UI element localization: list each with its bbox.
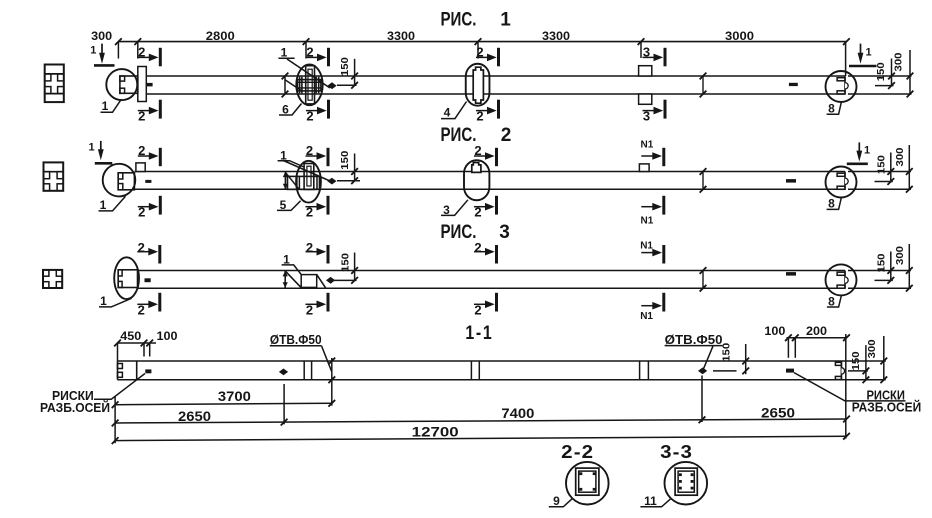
leader РИСКИ right <box>794 373 906 401</box>
console diagonal right fig.3 <box>317 275 326 288</box>
hole diamond fig.3 <box>326 277 335 284</box>
svg-text:РАЗБ.ОСЕЙ: РАЗБ.ОСЕЙ <box>852 400 922 415</box>
detail circle 8 fig.2 <box>826 167 857 198</box>
section marker 2 top at x160 fig.1 <box>159 48 162 67</box>
console diagonal fig.1 <box>287 59 330 88</box>
right notch top section 1-1 <box>835 362 841 365</box>
dim tick 641 <box>638 38 645 45</box>
svg-text:РИС.: РИС. <box>441 222 477 243</box>
console stub top left fig.2 <box>136 163 145 172</box>
left notch top section 1-1 <box>118 364 123 369</box>
section marker 2 bottom at x498 fig.1 <box>497 100 500 119</box>
svg-text:8: 8 <box>828 294 835 308</box>
svg-text:2: 2 <box>306 204 313 219</box>
dim 450-100 line left <box>118 342 157 344</box>
svg-text:2: 2 <box>306 108 313 123</box>
extension line left bottom dims <box>114 396 116 443</box>
centering bump right fig.1 <box>845 83 848 89</box>
joint lines at x640 <box>639 361 641 380</box>
section marker 2 top at x160 fig.2 <box>159 148 162 166</box>
svg-text:150: 150 <box>340 253 352 272</box>
svg-text:200: 200 <box>806 324 827 338</box>
end plate left fig.3 <box>118 270 137 288</box>
hidden console body fig.3 <box>301 275 317 288</box>
svg-text:2: 2 <box>138 240 145 255</box>
hole diamond fig.2 <box>327 178 336 185</box>
axis mark right fig.1 <box>789 83 798 86</box>
beam bottom line fig.2 <box>134 188 845 190</box>
svg-text:8: 8 <box>828 197 835 211</box>
svg-text:ØТВ.Ф50: ØТВ.Ф50 <box>270 332 322 347</box>
svg-text:РИС.: РИС. <box>441 125 477 146</box>
svg-text:2: 2 <box>476 108 483 123</box>
svg-text:7400: 7400 <box>501 405 534 421</box>
console post inner fig.1 <box>308 69 312 100</box>
extension line right end fig.1 <box>845 42 847 76</box>
centering bump right fig.2 <box>845 178 848 184</box>
detail circle 8 fig.1 <box>826 71 857 102</box>
console diagonal fig.2 <box>283 160 330 181</box>
dim line 2650-7400-2650 <box>115 419 846 423</box>
beam bottom line fig.1 <box>146 93 845 95</box>
stirrup section 3-3 <box>678 471 694 492</box>
section marker 2 top at x498 fig.1 <box>497 48 500 67</box>
end notch top right fig.1 <box>837 78 845 81</box>
svg-text:2: 2 <box>306 240 313 255</box>
band right end face <box>840 361 842 380</box>
console diagonal left fig.3 <box>285 271 301 288</box>
beam top extension right fig.1 <box>848 75 912 77</box>
console post fig.2 <box>304 164 314 190</box>
section marker 2 top at x496 fig.3 <box>495 245 498 264</box>
console stub top at x641 fig.1 <box>639 66 652 76</box>
svg-text:150: 150 <box>339 151 351 170</box>
console diagonal lower fig.1 <box>285 80 302 91</box>
section marker N1 bottom fig.3 <box>662 293 665 312</box>
axis mark right section 1-1 <box>786 369 794 373</box>
dim tick 306 <box>303 38 310 45</box>
hatch ticks console fig.1 <box>299 77 301 94</box>
centering bump right fig.3 <box>845 277 848 283</box>
beam top extension right fig.3 <box>848 270 911 272</box>
svg-text:1: 1 <box>500 9 511 30</box>
section arrow 1 right fig.2 <box>858 142 860 152</box>
detail circle 1 left fig.1 <box>106 69 137 100</box>
svg-text:12700: 12700 <box>412 423 459 439</box>
console stub bottom at x641 fig.1 <box>639 94 652 104</box>
hole symbol left section 1-1 <box>331 358 333 406</box>
band bottom extension right <box>843 379 886 381</box>
end notch top right fig.2 <box>837 173 845 176</box>
end plate anchor bottom-left fig.1 <box>120 88 125 93</box>
beam top line fig.2 <box>134 171 845 173</box>
svg-text:2: 2 <box>306 143 313 158</box>
beam right end face fig.2 <box>844 172 846 190</box>
svg-text:1: 1 <box>865 46 871 58</box>
dim tick 118 <box>115 38 122 45</box>
console post fig.1 <box>306 66 315 104</box>
axis point diamond left section 1-1 <box>279 369 288 376</box>
section arrow 1 left fig.2 <box>100 141 102 151</box>
end notch bottom right fig.3 <box>837 285 845 288</box>
axis mark left fig.2 <box>145 180 151 183</box>
svg-text:ØТВ.Ф50: ØТВ.Ф50 <box>665 332 723 347</box>
dim tick 478 <box>475 38 482 45</box>
end notch top right fig.3 <box>837 272 845 275</box>
end plate anchor bottom-left fig.3 <box>118 281 122 287</box>
svg-text:3000: 3000 <box>725 29 754 43</box>
svg-text:100: 100 <box>157 329 178 343</box>
beam right end face fig.1 <box>844 76 846 94</box>
beam right end face fig.3 <box>844 271 846 289</box>
right notch bottom section 1-1 <box>835 376 841 379</box>
svg-text:1: 1 <box>90 45 96 57</box>
beam top extension right fig.2 <box>848 171 911 173</box>
axis mark left section 1-1 <box>145 369 151 373</box>
end notch bottom right fig.2 <box>837 186 845 189</box>
beam bottom extension right fig.2 <box>848 188 911 190</box>
extension line 306 <box>305 42 307 59</box>
rebar dots section 3-3 <box>679 473 682 476</box>
section marker 3 top at x665 fig.1 <box>664 48 667 67</box>
dim line vertical at console fig.1 <box>284 76 286 94</box>
band top line section 1-1 <box>118 360 844 362</box>
joint stadium 4 fig.1 <box>473 67 483 103</box>
console post inner fig.2 <box>307 166 311 186</box>
extension line 478 <box>477 42 479 59</box>
svg-text:2-2: 2-2 <box>561 441 594 462</box>
beam top line fig.3 <box>138 270 846 272</box>
section marker 3 bottom at x665 fig.1 <box>664 100 667 119</box>
axis mark left fig.1 <box>147 83 153 87</box>
svg-text:300: 300 <box>866 339 878 358</box>
svg-text:8: 8 <box>828 101 835 115</box>
section marker N1 bottom fig.2 <box>662 196 665 215</box>
svg-text:150: 150 <box>339 57 351 76</box>
joint lines at x471 <box>470 361 472 380</box>
section marker 2 bottom at x328 fig.1 <box>327 100 330 119</box>
detail circle section 2-2 <box>566 462 609 505</box>
svg-text:N1: N1 <box>641 216 654 227</box>
svg-text:300: 300 <box>894 246 906 265</box>
cross-section icon fig.1 <box>45 65 64 103</box>
section marker N1 top fig.2 <box>662 148 665 166</box>
svg-text:150: 150 <box>876 253 888 272</box>
svg-text:9: 9 <box>553 494 560 508</box>
svg-text:РИС.: РИС. <box>441 9 477 30</box>
cross-section icon fig.2 <box>44 162 64 190</box>
svg-text:N1: N1 <box>640 240 653 251</box>
joint stadium 3 fig.2 <box>472 163 481 173</box>
section marker N1 top fig.3 <box>662 245 665 264</box>
svg-text:N1: N1 <box>641 140 654 151</box>
svg-text:2800: 2800 <box>206 29 235 43</box>
svg-text:450: 450 <box>120 329 141 343</box>
detail ellipse 5 fig.2 <box>296 161 321 203</box>
svg-text:2650: 2650 <box>178 408 211 424</box>
hole centerline tick at x703 fig.2 <box>702 172 704 190</box>
dim line vertical at console fig.3 <box>284 271 286 288</box>
svg-text:3700: 3700 <box>218 388 251 404</box>
column outline section 3-3 <box>675 468 697 495</box>
dim tick 138 <box>134 38 141 45</box>
svg-text:3-3: 3-3 <box>660 441 693 462</box>
section marker 2 bottom at x328 fig.2 <box>327 196 330 215</box>
detail circle section 3-3 <box>665 462 708 505</box>
end plate left fig.1 <box>120 76 138 93</box>
end plate anchor top-left fig.3 <box>118 270 122 276</box>
svg-text:3300: 3300 <box>542 29 570 43</box>
leader label 1 left fig.1 <box>101 100 122 113</box>
extension line 118 <box>117 42 119 59</box>
section marker 2 bottom at x328 fig.3 <box>327 293 330 312</box>
section marker 2 bottom at x160 fig.1 <box>159 100 162 119</box>
svg-text:РАЗБ.ОСЕЙ: РАЗБ.ОСЕЙ <box>40 400 110 415</box>
svg-text:2650: 2650 <box>761 405 795 421</box>
svg-text:2: 2 <box>138 45 145 60</box>
extension line 641 <box>640 42 642 58</box>
hole diamond fig.1 <box>327 82 336 89</box>
section marker 2 top at x328 fig.2 <box>327 148 330 166</box>
svg-text:300: 300 <box>893 52 905 71</box>
cross-section icon fig.3 <box>43 270 62 288</box>
axis mark left fig.3 <box>145 278 151 282</box>
end plate left fig.2 <box>118 173 134 190</box>
leader label 1 left fig.2 <box>99 196 126 211</box>
svg-text:2: 2 <box>138 204 145 219</box>
beam bottom extension right fig.3 <box>848 287 911 289</box>
svg-text:1: 1 <box>100 198 107 212</box>
dim line 12700 <box>115 436 846 440</box>
leader РИСКИ left <box>94 374 145 400</box>
plate boundary line section 1-1 <box>136 361 138 380</box>
section marker 2 top at x496 fig.2 <box>495 148 498 166</box>
svg-text:2: 2 <box>138 108 145 123</box>
console diagonal lower fig.2 <box>285 172 299 189</box>
svg-text:150: 150 <box>875 62 887 81</box>
detail ellipse 6 fig.1 <box>296 64 322 105</box>
hole centerline tick at x703 fig.3 <box>702 271 704 289</box>
console arm fig.1 <box>297 80 321 91</box>
beam bottom extension right fig.1 <box>848 93 912 95</box>
dim line vertical at console fig.2 <box>284 172 286 190</box>
column outline section 2-2 <box>576 468 599 495</box>
svg-text:2: 2 <box>474 302 481 317</box>
section marker 2 top at x160 fig.3 <box>158 245 161 264</box>
svg-text:2: 2 <box>501 125 512 146</box>
svg-text:2: 2 <box>474 204 481 219</box>
section marker 2 bottom at x160 fig.2 <box>159 196 162 215</box>
svg-text:150: 150 <box>721 343 733 362</box>
svg-text:4: 4 <box>444 105 451 119</box>
extension line right bottom dims <box>845 334 847 439</box>
section arrow 1 right fig.1 <box>860 44 862 55</box>
svg-text:1-1: 1-1 <box>465 323 493 344</box>
band top extension right <box>843 360 886 362</box>
svg-text:2: 2 <box>138 143 145 158</box>
section marker 2 bottom at x160 fig.3 <box>158 293 161 312</box>
svg-text:2: 2 <box>476 45 483 60</box>
extension line 138 <box>137 42 139 59</box>
centering bump right section 1-1 <box>841 368 844 374</box>
leader label 1 left fig.3 <box>99 298 132 307</box>
detail circle 8 fig.3 <box>826 264 857 295</box>
left notch bottom section 1-1 <box>118 372 123 377</box>
svg-text:3: 3 <box>643 45 650 60</box>
detail circle 1 left fig.2 <box>103 164 136 197</box>
dim tick 846 <box>843 38 850 45</box>
section marker 2 top at x328 fig.3 <box>327 245 330 264</box>
section marker 2 top at x328 fig.1 <box>327 48 330 67</box>
svg-text:2: 2 <box>474 240 481 255</box>
section arrow 1 left fig.1 <box>101 44 103 55</box>
dim 100-200 line right <box>787 337 847 339</box>
rebar dots section 2-2 <box>580 472 583 475</box>
svg-text:3: 3 <box>643 108 650 123</box>
end plate anchor top-left fig.1 <box>120 76 125 81</box>
band bottom line section 1-1 <box>118 379 844 381</box>
svg-text:1: 1 <box>88 142 94 154</box>
detail ellipse 1 left fig.3 <box>114 257 139 299</box>
hatch ticks console fig.2 <box>296 176 298 189</box>
joint lines at x304 <box>303 361 305 380</box>
hole centerline tick at x703 fig.1 <box>702 76 704 94</box>
column head block left fig.1 <box>138 67 147 102</box>
svg-text:11: 11 <box>644 494 657 508</box>
end plate anchor top-left fig.2 <box>118 173 123 179</box>
band left end face <box>117 361 119 380</box>
stirrup section 2-2 <box>579 471 596 492</box>
svg-text:300: 300 <box>894 147 906 166</box>
section marker 2 bottom at x496 fig.3 <box>495 293 498 312</box>
svg-text:3: 3 <box>499 222 510 243</box>
svg-text:2: 2 <box>474 143 481 158</box>
dim line 3700 <box>115 403 332 404</box>
hole diamond right section 1-1 <box>698 368 707 375</box>
svg-text:2: 2 <box>306 45 313 60</box>
svg-text:N1: N1 <box>640 311 653 322</box>
axis mark right fig.3 <box>786 272 796 276</box>
console arm fig.2 <box>288 176 320 189</box>
svg-text:1: 1 <box>864 145 870 157</box>
svg-text:3300: 3300 <box>387 29 415 43</box>
dimension chain line fig.1 <box>118 41 846 43</box>
beam bottom line fig.3 <box>138 287 846 289</box>
svg-text:300: 300 <box>91 29 112 43</box>
end notch bottom right fig.1 <box>837 91 845 94</box>
svg-text:100: 100 <box>764 324 785 338</box>
end plate anchor bottom-left fig.2 <box>118 184 123 190</box>
svg-text:2: 2 <box>306 302 313 317</box>
svg-text:1: 1 <box>102 99 109 113</box>
svg-text:1: 1 <box>100 294 107 308</box>
axis mark right fig.2 <box>786 179 796 183</box>
beam top line fig.1 <box>146 75 845 77</box>
console stub top at x641 fig.2 <box>639 164 649 172</box>
svg-text:2: 2 <box>138 302 145 317</box>
section marker 2 bottom at x496 fig.2 <box>495 196 498 215</box>
